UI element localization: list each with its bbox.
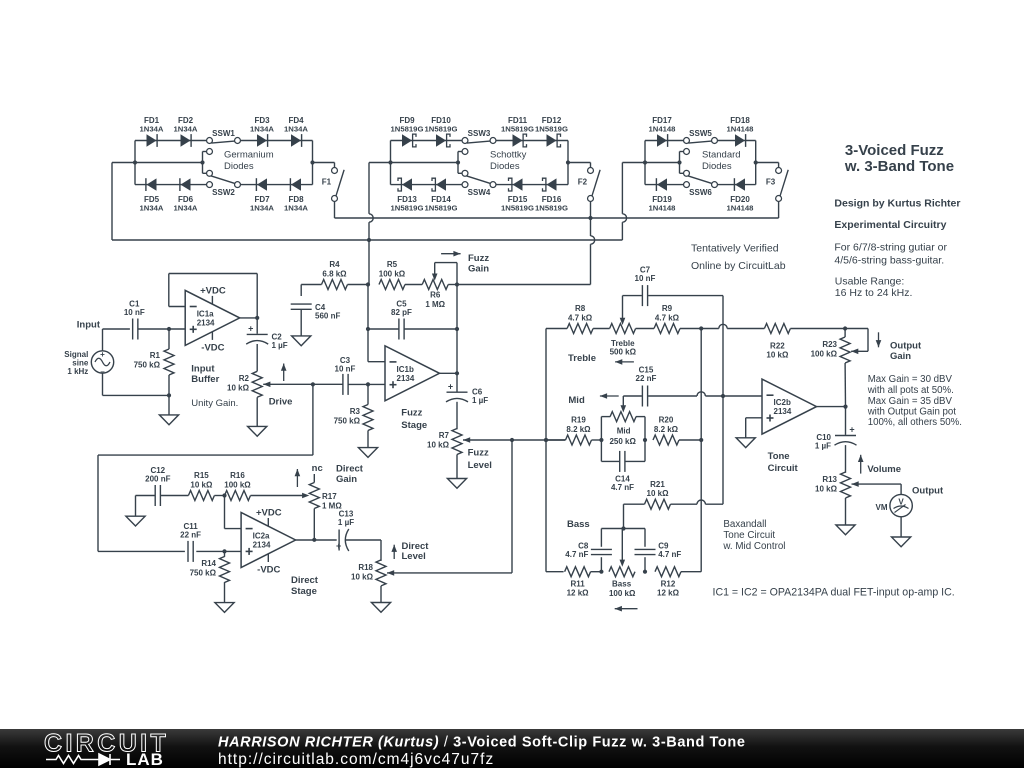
wire G1 left drop [111, 163, 113, 241]
diode FD16 [547, 178, 557, 190]
wire [241, 140, 313, 142]
wire R14 [224, 551, 226, 557]
wire C15 row [624, 395, 642, 397]
node bass box R [643, 570, 647, 574]
capacitor C13 [338, 530, 340, 551]
diode FD20 [735, 178, 745, 190]
diode FD15 [513, 178, 523, 190]
diode FD17 [657, 134, 667, 146]
node tone right mid [699, 438, 703, 442]
resistor R2 [252, 371, 262, 397]
resistor R15 [188, 491, 214, 501]
wire IC2b plus [746, 417, 762, 419]
wire out-C10 [845, 407, 847, 435]
wire [590, 163, 592, 168]
diode FD1 [147, 134, 157, 146]
switch bracket [679, 152, 681, 174]
wire C5 row [368, 328, 399, 330]
wire R17 bottom [313, 509, 315, 540]
annotation arrow Bass dir [615, 608, 638, 610]
wire C15 right [648, 395, 697, 397]
wire R1 bottom [168, 329, 170, 349]
voltmeter VM [890, 494, 912, 516]
wire [636, 328, 654, 330]
wire IC2b out [817, 406, 846, 408]
ground GND9 [736, 438, 755, 448]
annotation arrow Treble dir [615, 361, 634, 363]
wire R21 right [705, 503, 723, 505]
capacitor C12 [154, 485, 156, 506]
wire out-C6 [456, 373, 458, 391]
wire C2-R2 [256, 344, 258, 371]
resistor R8 [567, 324, 593, 334]
wire bass box [601, 528, 645, 530]
potentiometer R7 wiper [463, 437, 470, 443]
wire [591, 236, 595, 244]
wire [134, 141, 136, 185]
switch SSW3 [462, 138, 468, 144]
wire [591, 571, 602, 573]
capacitor C5 [398, 319, 400, 340]
capacitor C10 [835, 435, 856, 437]
node tone left mid [544, 438, 548, 442]
svg-text:LAB: LAB [126, 750, 164, 768]
wire [790, 328, 845, 330]
wire [391, 140, 462, 142]
node mid box R [643, 438, 647, 442]
wire [567, 141, 569, 185]
op-amp IC2a [241, 513, 296, 568]
resistor R11 [565, 567, 591, 577]
wire R6-out vert [456, 285, 458, 374]
wire IC2a inv [224, 496, 226, 529]
resistor R3 [363, 405, 373, 431]
node mid box L [599, 438, 603, 442]
ground GND1 [159, 415, 178, 425]
potentiometer R13 wiper [852, 481, 859, 487]
node fb node [222, 493, 226, 497]
wire [496, 184, 568, 186]
wire [679, 439, 701, 441]
resistor R7 [452, 429, 462, 455]
capacitor C4 [291, 303, 312, 305]
wire R23 top [844, 329, 846, 338]
capacitor C1 [132, 319, 134, 340]
diode FD3 [257, 134, 267, 146]
wire [334, 163, 336, 168]
wire inv down [367, 285, 369, 362]
ground GND2 [248, 426, 267, 436]
wire F1 down [334, 202, 336, 218]
wire [390, 141, 392, 185]
wire IC2a out [296, 539, 337, 541]
wire [697, 392, 705, 396]
capacitor C8 [591, 548, 612, 550]
node G2 left [388, 160, 392, 164]
switch bracket [202, 152, 204, 174]
node C15 node [721, 394, 725, 398]
wire [592, 439, 602, 441]
wire treble row [546, 328, 567, 330]
node direct join [510, 438, 514, 442]
potentiometer Bass wiper [620, 560, 626, 567]
node G3 right [754, 160, 758, 164]
wire [196, 550, 241, 552]
potentiometer R2 wiper [263, 382, 270, 388]
wire mid row [546, 439, 566, 441]
wire [681, 571, 701, 573]
wire [645, 140, 683, 142]
wire F2 down pt2 [590, 244, 592, 284]
wire R23 bottom [844, 363, 846, 407]
resistor R17 [309, 483, 319, 509]
wire R7 gnd [456, 455, 458, 479]
ground GND8 [371, 603, 390, 613]
wire G3 left drop pt1 [621, 163, 623, 214]
switch F3 [776, 168, 782, 174]
node R14 tap [222, 549, 226, 553]
wire [448, 284, 457, 286]
wire IC1a feedback [169, 306, 185, 308]
wire R21 row [624, 503, 645, 505]
resistor R21 [645, 499, 671, 509]
wire C4 branch [301, 284, 321, 286]
node bus2 join [367, 238, 371, 242]
node treble right [699, 326, 703, 330]
wire [241, 184, 313, 186]
potentiometer R18 wiper [387, 570, 394, 576]
node IC2a out node [312, 538, 316, 542]
wire C15 right2 [705, 395, 762, 397]
source V1 signal [91, 351, 113, 373]
diode FD5 [147, 178, 157, 190]
node src gnd [167, 393, 171, 397]
wire bass row [546, 571, 564, 573]
resistor R5 [379, 280, 405, 290]
wire [622, 214, 626, 222]
ground GND6 [126, 516, 145, 526]
wire [251, 495, 304, 497]
node IC1b out [455, 371, 459, 375]
resistor R19 [566, 435, 592, 445]
wire [496, 140, 568, 142]
node G1 right [310, 160, 314, 164]
banner [0, 729, 1024, 768]
wire C4 gnd [300, 309, 302, 336]
switch F2 [588, 168, 594, 174]
ground GND11 [892, 537, 911, 547]
node G2 right [566, 160, 570, 164]
wire R18 gnd [380, 586, 382, 603]
wire [568, 162, 591, 164]
annotation arrow Volume [860, 455, 862, 474]
diode FD9 [402, 134, 412, 146]
node drive node [311, 382, 315, 386]
wire [312, 141, 314, 185]
ground GND10 [836, 525, 855, 535]
resistor RT [610, 324, 636, 334]
wire [680, 328, 719, 330]
node tone in mid [544, 438, 548, 442]
diode FD6 [181, 178, 191, 190]
switch bracket [457, 152, 459, 174]
wire [214, 495, 224, 497]
op-amp IC1b [385, 346, 440, 401]
diode FD13 [402, 178, 412, 190]
diode FD8 [291, 178, 301, 190]
wire R17 top nc [313, 474, 315, 483]
switch F1 [332, 168, 338, 174]
wire [348, 284, 369, 286]
wire R3 [367, 384, 369, 404]
ground GND7 [215, 603, 234, 613]
wire [719, 324, 727, 328]
diode FD11 [513, 134, 523, 146]
wire [313, 162, 335, 164]
capacitor C2 [247, 333, 268, 335]
wire G3 left drop pt2 [621, 222, 623, 240]
potentiometer Treble wiper [620, 318, 626, 325]
resistor RM [610, 412, 636, 422]
wire tone left [545, 329, 547, 572]
resistor R1 [164, 349, 174, 375]
wire G2 left drop pt1 [368, 163, 370, 214]
wire R2 bottom [256, 397, 258, 426]
wire F3 down [778, 202, 780, 218]
wire C10-R13 [845, 445, 847, 473]
wire [135, 140, 206, 142]
node G3 mid [677, 160, 681, 164]
wire [405, 284, 422, 286]
annotation arrow Output Gain [878, 332, 880, 347]
resistor R13 [841, 472, 851, 498]
capacitor C7 [641, 285, 643, 306]
potentiometer R6 wiper [432, 274, 438, 281]
capacitor C9 [635, 548, 656, 550]
resistor R12 [655, 567, 681, 577]
wire C6-R7 [456, 402, 458, 430]
wire IC1a out [240, 317, 258, 319]
op-amp IC1a [185, 290, 240, 345]
node bass box L [599, 570, 603, 574]
wire bus1 [335, 217, 779, 219]
wire direct tap [312, 384, 314, 455]
ground GND4 [358, 448, 377, 458]
wire [369, 214, 373, 222]
resistor R20 [653, 435, 679, 445]
wire [778, 163, 780, 168]
node bus1-F2 [588, 216, 592, 220]
wire VM gnd [900, 517, 902, 537]
op-amp IC2b [762, 379, 817, 434]
node C5 right [455, 327, 459, 331]
switch SSW5 [684, 138, 690, 144]
capacitor C14 [619, 451, 621, 472]
resistor R9 [654, 324, 680, 334]
svg-text:HARRISON RICHTER (Kurtus) / 3-: HARRISON RICHTER (Kurtus) / 3-Voiced Sof… [218, 735, 746, 751]
wire C7 right [648, 295, 723, 297]
node R3 tap [366, 382, 370, 386]
capacitor C6 [447, 391, 468, 393]
annotation arrow Fuzz Gain [441, 253, 461, 255]
node IC2b out [843, 405, 847, 409]
wire [103, 328, 130, 330]
wire bus2 [112, 239, 622, 241]
wire [756, 162, 779, 164]
diode FD10 [436, 134, 446, 146]
potentiometer R17 wiper [302, 493, 309, 499]
potentiometer Mid wiper [621, 405, 627, 412]
capacitor C11 [187, 541, 189, 562]
wire [671, 503, 698, 505]
capacitor C3 [342, 374, 344, 395]
annotation arrow Drive [283, 364, 285, 382]
node IC1a out [255, 316, 259, 320]
resistor R4 [322, 280, 348, 290]
diode FD19 [657, 178, 667, 190]
wire IC1b out [440, 372, 458, 374]
resistor R18 [376, 560, 386, 586]
wire R13 gnd [845, 498, 847, 525]
node G1 left [133, 160, 137, 164]
potentiometer R23 wiper [851, 349, 858, 355]
wire mid box [600, 417, 602, 462]
wire [644, 141, 646, 185]
node input R1 [167, 327, 171, 331]
wire [161, 495, 189, 497]
annotation arrow Direct Level [393, 545, 395, 559]
wire [138, 328, 185, 330]
annotation arrow Direct Gain [296, 469, 298, 487]
node G1 mid [200, 160, 204, 164]
logo squiggle [46, 756, 89, 764]
resistor R16 [225, 491, 251, 501]
wire [593, 328, 610, 330]
diode FD4 [291, 134, 301, 146]
switch SSW2 [207, 182, 213, 188]
wire [348, 383, 385, 385]
svg-text:http://circuitlab.com/cm4j6vc4: http://circuitlab.com/cm4j6vc47u7fz [218, 751, 494, 768]
wire [718, 140, 756, 142]
node C5 left [366, 327, 370, 331]
wire R21 stem [623, 504, 625, 528]
wire [391, 184, 462, 186]
switch SSW6 [684, 182, 690, 188]
wire G2 left drop pt2 [368, 222, 370, 284]
resistor RB [609, 567, 635, 577]
node G2 mid [456, 160, 460, 164]
wire x723 vert2 [722, 396, 724, 504]
wire [135, 184, 206, 186]
node inv node [366, 282, 370, 286]
resistor R23 [840, 337, 850, 363]
node bass top [621, 526, 625, 530]
wire [697, 500, 705, 504]
wire [755, 141, 757, 185]
wire [727, 328, 764, 330]
wire tone right [700, 329, 702, 572]
switch SSW1 [207, 138, 213, 144]
diode FD7 [257, 178, 267, 190]
diode FD14 [436, 178, 446, 190]
diode FD12 [547, 134, 557, 146]
resistor R6 [422, 280, 448, 290]
ground GND3 [292, 336, 311, 346]
node G3 left [643, 160, 647, 164]
diode FD18 [735, 134, 745, 146]
wire [102, 329, 104, 351]
node R6 right [455, 282, 459, 286]
diode FD2 [181, 134, 191, 146]
wire to C2 [256, 318, 258, 334]
wire [718, 184, 756, 186]
wire C12 left [136, 495, 155, 497]
capacitor C15 [641, 386, 643, 407]
switch SSW4 [462, 182, 468, 188]
resistor R22 [764, 324, 790, 334]
wire F2 down [590, 202, 592, 236]
wire [645, 184, 683, 186]
wire C13-R18 [346, 539, 381, 541]
resistor R14 [220, 557, 230, 583]
annotation arrow Mid dir [600, 395, 619, 397]
node R23 top [843, 326, 847, 330]
ground GND5 [447, 479, 466, 489]
